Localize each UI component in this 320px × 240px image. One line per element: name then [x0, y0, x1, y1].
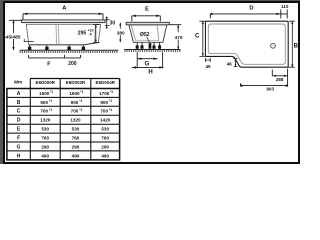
svg-text:46: 46 — [227, 61, 233, 66]
svg-text:200: 200 — [68, 61, 77, 67]
svg-text:*1: *1 — [109, 108, 112, 112]
svg-text:445/485: 445/485 — [3, 34, 21, 40]
inner basin floor (end) — [136, 40, 159, 42]
svg-text:F: F — [47, 61, 51, 67]
svg-text:B: B — [294, 43, 299, 49]
dim E line — [132, 16, 161, 22]
svg-text:*1: *1 — [110, 90, 113, 94]
svg-text:1600: 1600 — [69, 91, 80, 96]
svg-text:*1: *1 — [79, 108, 82, 112]
G/H extension lines — [137, 52, 162, 68]
svg-text:700: 700 — [40, 109, 48, 114]
panel seam lines — [56, 24, 59, 45]
svg-text:E: E — [17, 127, 21, 133]
svg-text:700: 700 — [71, 109, 79, 114]
table row letters — [17, 91, 21, 159]
svg-text:C: C — [17, 109, 21, 115]
svg-text:110: 110 — [281, 4, 289, 9]
dim F / 200 bracket — [29, 55, 81, 58]
svg-text:E6D000R: E6D000R — [35, 80, 55, 85]
tub body (end) — [129, 25, 167, 42]
svg-text:530: 530 — [101, 127, 109, 132]
dim B line — [289, 21, 295, 67]
dim A line — [23, 14, 103, 20]
drain leader — [147, 37, 150, 43]
dim 380 line — [119, 23, 121, 43]
svg-text:380: 380 — [117, 30, 125, 35]
svg-text:*1: *1 — [80, 90, 83, 94]
svg-text:295: 295 — [78, 31, 87, 37]
feet (end) — [136, 45, 139, 48]
svg-text:490: 490 — [101, 153, 109, 158]
plan inner rim — [208, 24, 285, 64]
inner basin walls (end) — [131, 25, 159, 41]
foot stems (side) — [30, 45, 84, 47]
svg-text:E: E — [145, 7, 149, 13]
svg-text:A: A — [62, 5, 67, 11]
svg-text:-0: -0 — [89, 32, 92, 36]
svg-text:F: F — [17, 136, 20, 142]
table header codes — [35, 80, 115, 85]
svg-text:*1: *1 — [79, 99, 82, 103]
tub body bottom edge — [29, 43, 99, 45]
table grid — [30, 78, 119, 80]
plan outer outline — [205, 21, 288, 67]
foot stems (end) — [137, 42, 159, 45]
svg-text:1320: 1320 — [70, 118, 81, 123]
svg-text:290: 290 — [101, 144, 109, 149]
svg-text:900: 900 — [40, 100, 48, 105]
dim G line — [137, 58, 157, 60]
dim 110 ticks — [281, 9, 287, 18]
svg-text:700: 700 — [100, 109, 108, 114]
right inner wall — [94, 24, 95, 42]
drain pipe — [149, 43, 152, 49]
floor hatch (side) — [20, 51, 119, 53]
svg-text:B: B — [17, 100, 21, 106]
dim 46 line — [234, 59, 238, 67]
bath rim (side) — [22, 20, 105, 23]
svg-text:530: 530 — [41, 127, 49, 132]
svg-text:530: 530 — [72, 127, 80, 132]
svg-text:*1: *1 — [49, 108, 52, 112]
svg-text:1700: 1700 — [99, 91, 110, 96]
svg-text:470: 470 — [175, 35, 183, 41]
feet (side) — [28, 47, 31, 50]
svg-text:H: H — [17, 153, 21, 159]
svg-text:D: D — [249, 6, 253, 12]
svg-text:760: 760 — [41, 136, 49, 141]
svg-text:G: G — [17, 144, 21, 150]
svg-text:30: 30 — [110, 20, 116, 26]
svg-text:45: 45 — [205, 64, 211, 69]
bath rim (end) — [126, 22, 169, 25]
dim 470 line — [169, 25, 181, 50]
svg-text:903: 903 — [266, 87, 274, 92]
svg-text:490: 490 — [72, 153, 80, 158]
svg-text:760: 760 — [72, 136, 80, 141]
dim 445/485 vertical line — [9, 20, 22, 50]
svg-text:Mm: Mm — [14, 80, 22, 86]
dim 45 ticks — [205, 58, 210, 62]
plan drain — [271, 43, 276, 48]
svg-text:1500: 1500 — [39, 91, 50, 96]
floor line (end) — [124, 49, 180, 51]
floor hatch (end) — [124, 50, 180, 52]
footnote superscripts — [49, 90, 113, 112]
svg-text:490: 490 — [41, 153, 49, 158]
svg-text:G: G — [145, 62, 150, 68]
svg-text:290: 290 — [72, 144, 80, 149]
leader from 445/485 — [24, 39, 33, 42]
svg-text:1420: 1420 — [100, 118, 111, 123]
dim C line — [199, 21, 205, 56]
svg-text:290: 290 — [41, 144, 49, 149]
svg-text:288: 288 — [276, 77, 284, 82]
svg-text:1320: 1320 — [40, 118, 51, 123]
svg-text:*1: *1 — [109, 99, 112, 103]
tub body (side) — [26, 24, 100, 45]
table values — [39, 91, 111, 158]
svg-text:E6D004R: E6D004R — [95, 80, 115, 85]
svg-text:A: A — [17, 91, 21, 97]
svg-text:D: D — [17, 118, 21, 124]
svg-text:*1: *1 — [50, 90, 53, 94]
dim D line — [210, 14, 287, 18]
svg-text:E6D002R: E6D002R — [66, 80, 86, 85]
dim H line — [132, 66, 164, 68]
svg-text:Ø52: Ø52 — [140, 32, 150, 38]
svg-text:*1: *1 — [49, 99, 52, 103]
svg-text:760: 760 — [101, 136, 109, 141]
svg-text:C: C — [195, 34, 200, 40]
dim 903 — [241, 83, 288, 86]
svg-text:900: 900 — [100, 100, 108, 105]
dim 288 — [272, 69, 287, 87]
svg-text:H: H — [148, 69, 152, 75]
svg-text:900: 900 — [71, 100, 79, 105]
dim 30 (rim thickness) — [105, 17, 110, 29]
floor line (side) — [20, 49, 119, 51]
